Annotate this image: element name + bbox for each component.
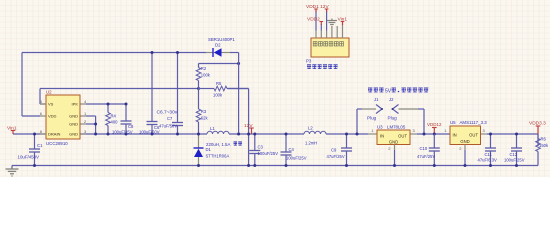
svg-text:47uF/50V: 47uF/50V xyxy=(159,123,177,128)
net label VDD3.3 xyxy=(529,121,546,135)
value C12 xyxy=(504,158,525,163)
node R5-main junction xyxy=(247,133,250,136)
svg-text:IN: IN xyxy=(380,134,384,139)
pin number 4 xyxy=(84,99,87,104)
value STTH1R06A xyxy=(206,154,230,159)
svg-text:GND: GND xyxy=(460,139,469,144)
svg-text:Plug: Plug xyxy=(367,116,377,121)
wire Vin1 pin xyxy=(342,24,344,31)
node C6 top xyxy=(151,51,154,54)
pin number 3 xyxy=(84,129,87,134)
value AMS1117_3.3 xyxy=(460,120,488,125)
wire R2 top xyxy=(199,63,239,65)
node R4 bottom xyxy=(107,133,110,136)
value LM78L05 xyxy=(387,125,406,130)
pin GND1 name xyxy=(69,114,78,119)
wire GND1 stub xyxy=(80,116,96,124)
svg-text:OUT: OUT xyxy=(398,134,407,139)
capacitor C6 xyxy=(147,53,158,135)
capacitor C7 xyxy=(172,53,183,135)
pin VDD name xyxy=(48,114,57,119)
pin U3 OUT xyxy=(398,134,407,139)
wire J1 feed xyxy=(357,109,376,134)
node R5 rail junction xyxy=(247,164,250,167)
wire main L1-L2 segment xyxy=(229,133,304,135)
svg-text:100uF/25V: 100uF/25V xyxy=(286,156,307,161)
inductor L1 xyxy=(207,131,229,134)
pin U3 IN xyxy=(380,134,384,139)
capacitor C11 xyxy=(485,134,496,166)
svg-text:10uF/450V: 10uF/450V xyxy=(18,155,40,160)
label L2 xyxy=(308,126,313,131)
value C3 xyxy=(258,151,279,156)
svg-text:U3: U3 xyxy=(377,125,383,130)
wire gnd pin xyxy=(331,27,333,31)
wire 12V pin xyxy=(326,11,328,31)
capacitor C3 xyxy=(249,134,260,166)
node R4 top xyxy=(107,103,110,106)
capacitor C8 xyxy=(121,104,132,134)
wire main mid segment xyxy=(80,133,207,135)
capacitor C4 xyxy=(281,134,292,166)
pin VS name xyxy=(48,102,54,107)
svg-text:100uF/25V: 100uF/25V xyxy=(504,158,525,163)
node D1 bottom xyxy=(197,164,200,167)
pin names P3 xyxy=(313,42,343,46)
regulator U5 body xyxy=(450,126,481,145)
connector J2 xyxy=(392,105,399,114)
svg-text:DRAIN: DRAIN xyxy=(48,132,61,137)
node C1 bottom xyxy=(33,164,36,167)
value C1 xyxy=(18,155,40,160)
pin stub DRAIN xyxy=(40,133,46,135)
value L2 1.2mH xyxy=(305,141,317,146)
net label Vin1 top xyxy=(338,17,348,26)
svg-text:C12: C12 xyxy=(510,152,518,157)
wire VDD3.3 corner to R6 xyxy=(537,134,539,146)
svg-text:UCC28910: UCC28910 xyxy=(46,141,68,146)
wire top rail xyxy=(22,52,206,54)
wire GND3 stub xyxy=(80,133,86,135)
svg-text:R3: R3 xyxy=(201,109,207,114)
pin U5 OUT xyxy=(469,133,478,138)
pin U5 GND xyxy=(460,139,469,144)
wire IPK xyxy=(80,103,126,105)
svg-text:R6: R6 xyxy=(541,137,547,142)
wire U5 gnd xyxy=(464,145,466,166)
svg-text:J1: J1 xyxy=(374,97,379,102)
wire R5 right to ground xyxy=(228,89,249,166)
pin number 5 xyxy=(40,99,43,104)
pin number U5-3 xyxy=(483,128,486,133)
value R4 400 xyxy=(111,120,119,125)
svg-text:AMS1117_3.3: AMS1117_3.3 xyxy=(460,120,488,125)
svg-text:47uF/25V: 47uF/25V xyxy=(417,154,435,159)
node U3 gnd rail xyxy=(393,164,396,167)
wire VS staple xyxy=(40,89,46,105)
grid background xyxy=(0,0,550,177)
connector P3 body xyxy=(311,38,349,57)
resistor R5 xyxy=(199,86,249,91)
node VS/R2/R3 junction xyxy=(197,87,200,90)
wire GND join vertical xyxy=(95,124,97,134)
svg-text:J2: J2 xyxy=(389,97,394,102)
net label 12V xyxy=(244,123,254,134)
wire main L2-U3 segment xyxy=(326,133,377,135)
svg-text:C8: C8 xyxy=(128,124,134,129)
pin U3 GND xyxy=(389,140,398,145)
pin number U3-2 xyxy=(388,146,391,151)
wire pin5 xyxy=(336,26,338,31)
pin stub VS xyxy=(40,103,46,105)
node C8 top xyxy=(125,103,128,106)
label C11 xyxy=(485,152,493,157)
annotation C6.7~30v xyxy=(157,110,178,116)
svg-text:GND: GND xyxy=(69,122,78,127)
node C3 bottom xyxy=(253,164,256,167)
pin number 2 xyxy=(84,119,87,124)
svg-text:IN: IN xyxy=(453,133,457,138)
svg-text:C6.7~30v: C6.7~30v xyxy=(157,110,178,116)
value UCC28910 xyxy=(46,141,68,146)
svg-text:IPK: IPK xyxy=(72,102,79,107)
label R4 xyxy=(111,114,117,119)
pin number 1 xyxy=(84,111,87,116)
wire J2 return xyxy=(399,109,425,134)
connector J1 xyxy=(376,105,383,114)
label L1 xyxy=(210,126,215,131)
svg-text:1.2mH: 1.2mH xyxy=(305,141,317,146)
value R2 100k xyxy=(201,73,211,78)
svg-text:5V: 5V xyxy=(385,89,392,95)
pin GND3 name xyxy=(69,132,78,137)
svg-text:U5: U5 xyxy=(450,120,456,125)
svg-text:P3: P3 xyxy=(306,59,312,64)
svg-text:VDD: VDD xyxy=(48,114,57,119)
label C1 xyxy=(37,143,43,148)
node C11 top xyxy=(489,133,492,136)
node C8 bottom xyxy=(125,133,128,136)
svg-text:GND: GND xyxy=(69,132,78,137)
label J1 xyxy=(374,97,379,102)
diode D1 xyxy=(194,134,204,166)
svg-text:C10: C10 xyxy=(420,146,428,151)
svg-text:R5: R5 xyxy=(216,81,222,86)
value L1 xyxy=(206,142,242,147)
svg-text:L2: L2 xyxy=(308,126,313,131)
pin number U3-3 xyxy=(413,128,416,133)
label U2 xyxy=(46,90,52,95)
capacitor C12 xyxy=(511,134,522,166)
svg-text:47uF/25V: 47uF/25V xyxy=(327,154,345,159)
wire left vertical to VDD pin xyxy=(22,53,40,117)
svg-text:GND: GND xyxy=(389,140,398,145)
capacitor C10 xyxy=(429,134,440,166)
diode D2 xyxy=(206,48,239,57)
op-amp U2 body xyxy=(46,95,80,139)
node J1 junction xyxy=(356,133,359,136)
label J2 Plug xyxy=(388,116,398,121)
wire GND2 stub xyxy=(80,123,96,125)
inductor L2 xyxy=(304,131,326,134)
node C12 top xyxy=(515,133,518,136)
net label Vin1 xyxy=(7,125,17,134)
ground GND1 symbol xyxy=(6,166,19,177)
pin stub VDD xyxy=(40,115,46,117)
wire ground rail xyxy=(12,165,538,167)
svg-text:C9: C9 xyxy=(331,148,337,153)
pin number U5-2 xyxy=(459,146,462,151)
capacitor C9 xyxy=(341,134,352,166)
pin number 6 xyxy=(40,111,43,116)
pin number 8 xyxy=(40,129,43,134)
label C12 xyxy=(510,152,518,157)
node GND3 join xyxy=(94,133,97,136)
svg-text:100uF/50V: 100uF/50V xyxy=(139,129,160,134)
value C11 xyxy=(478,158,498,163)
node C1 top xyxy=(33,133,36,136)
node C12 bottom xyxy=(515,164,518,167)
svg-text:OUT: OUT xyxy=(469,133,478,138)
value R5 100k xyxy=(213,93,223,98)
label U5 xyxy=(450,120,456,125)
node D1 top xyxy=(197,133,200,136)
svg-text:100uF/25V: 100uF/25V xyxy=(112,129,133,134)
label C4 xyxy=(289,147,295,152)
svg-text:C7: C7 xyxy=(167,116,173,121)
value C8 xyxy=(112,129,133,134)
annotation no-5V note xyxy=(368,88,428,95)
annotation P3 chinese xyxy=(307,65,338,69)
svg-text:D2: D2 xyxy=(215,43,221,48)
svg-text:GND: GND xyxy=(69,114,78,119)
svg-text:C4: C4 xyxy=(289,147,295,152)
wire main Vin segment xyxy=(13,133,46,135)
label SBR1U400P1 xyxy=(208,37,235,42)
svg-text:R2: R2 xyxy=(201,66,207,71)
net label VDD1 12V xyxy=(306,4,329,12)
node C7 top xyxy=(176,51,179,54)
label C3 xyxy=(258,145,264,150)
node C3 top xyxy=(253,133,256,136)
resistor R6 xyxy=(536,134,541,166)
pin number U5-1 xyxy=(444,128,447,133)
node C4 bottom xyxy=(285,164,288,167)
node R2-D2 junction xyxy=(237,62,240,65)
svg-text:220uH, 1.5A: 220uH, 1.5A xyxy=(206,142,230,147)
value C6 xyxy=(139,129,160,134)
label D2 xyxy=(215,43,221,48)
label C8 xyxy=(128,124,134,129)
value C4 xyxy=(286,156,307,161)
node C9 top xyxy=(345,133,348,136)
svg-text:100k: 100k xyxy=(201,73,211,78)
svg-text:C11: C11 xyxy=(485,152,493,157)
value R6 150k xyxy=(539,143,549,148)
svg-text:VDD2: VDD2 xyxy=(307,17,320,23)
resistor R2 xyxy=(196,64,201,89)
svg-text:150k: 150k xyxy=(539,143,549,148)
node C11 bottom xyxy=(489,164,492,167)
svg-text:LM78L05: LM78L05 xyxy=(387,125,406,130)
label J1 Plug xyxy=(367,116,377,121)
svg-text:100k: 100k xyxy=(213,93,223,98)
node J2 junction xyxy=(423,133,426,136)
pin IPK name xyxy=(72,102,79,107)
label R2 xyxy=(201,66,207,71)
svg-text:D1: D1 xyxy=(206,147,212,152)
node C7 bottom xyxy=(176,133,179,136)
label C7 xyxy=(167,116,173,121)
label C6 xyxy=(154,125,160,130)
wire U3 out segment xyxy=(410,133,450,135)
label C9 xyxy=(331,148,337,153)
regulator U3 body xyxy=(377,130,410,145)
node GND2 join xyxy=(94,123,97,126)
svg-text:VS: VS xyxy=(48,102,54,107)
pin stubs P3 xyxy=(316,31,343,39)
wire VDD1 pin xyxy=(315,11,317,31)
ground P3 symbol xyxy=(327,19,337,27)
svg-text:62k: 62k xyxy=(201,116,209,121)
svg-text:SBR1U400P1: SBR1U400P1 xyxy=(208,37,235,42)
label D1 xyxy=(206,147,212,152)
node VDD12 junction xyxy=(433,133,436,136)
value C7 xyxy=(159,123,177,128)
svg-text:C1: C1 xyxy=(37,143,43,148)
svg-text:STTH1R06A: STTH1R06A xyxy=(206,154,230,159)
node U5 gnd rail xyxy=(464,164,467,167)
svg-text:47uF/6.3V: 47uF/6.3V xyxy=(478,158,498,163)
wire U3 gnd xyxy=(394,145,396,166)
label R6 xyxy=(541,137,547,142)
svg-text:400: 400 xyxy=(111,120,119,125)
node C9 bottom xyxy=(345,164,348,167)
label U3 xyxy=(377,125,383,130)
svg-text:100uF/25V: 100uF/25V xyxy=(258,151,279,156)
capacitor C1 xyxy=(29,134,40,166)
svg-text:VDD12: VDD12 xyxy=(427,122,442,127)
net label VDD12 xyxy=(427,122,442,134)
svg-text:L1: L1 xyxy=(210,126,215,131)
label R5 xyxy=(216,81,222,86)
label P3 xyxy=(306,59,312,64)
wire D2 vertical xyxy=(238,53,240,135)
node C6 bottom xyxy=(151,133,154,136)
label C10 xyxy=(420,146,428,151)
value C9 xyxy=(327,154,345,159)
label R3 xyxy=(201,109,207,114)
wire VDD2 pin xyxy=(320,24,322,31)
node C10 bottom xyxy=(433,164,436,167)
svg-text:R4: R4 xyxy=(111,114,117,119)
svg-text:C3: C3 xyxy=(258,145,264,150)
pin GND2 name xyxy=(69,122,78,127)
pin number U3-1 xyxy=(371,128,374,133)
net label VDD2 xyxy=(307,17,323,26)
value C10 xyxy=(417,154,435,159)
resistor R4 xyxy=(106,104,111,134)
pin DRAIN name xyxy=(48,132,61,137)
svg-text:Plug: Plug xyxy=(388,116,398,121)
value R3 62k xyxy=(201,116,209,121)
pin U5 IN xyxy=(453,133,457,138)
label J2 xyxy=(389,97,394,102)
wire VS sense xyxy=(40,88,199,90)
node C4 top xyxy=(285,133,288,136)
svg-text:U2: U2 xyxy=(46,90,52,95)
resistor R3 xyxy=(196,89,201,135)
node D2-main junction xyxy=(237,133,240,136)
wire U5 out segment xyxy=(481,133,539,135)
